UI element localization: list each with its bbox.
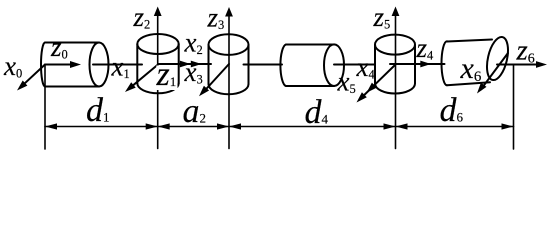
joint J5 cylinder (vertical) <box>375 35 415 94</box>
dimension line d4 <box>229 123 396 129</box>
dimension line d1 <box>45 123 158 129</box>
z6 axis <box>497 61 547 68</box>
z0 axis <box>45 61 81 68</box>
dimension line d6 <box>396 123 514 129</box>
z5 axis <box>392 7 400 149</box>
joint J3 cylinder (vertical) <box>209 34 249 94</box>
dimension extension line at x0 origin <box>44 65 46 150</box>
dimension line a2 <box>158 123 229 129</box>
x6 axis (diagonal toward viewer) <box>477 53 508 94</box>
label z1 (boxed inside joint J2) <box>156 56 178 93</box>
x2 axis line from frame origin through joint J2 wall <box>158 63 179 65</box>
wire axis link1 to joint2 <box>93 64 142 66</box>
wire axis joint3 to link L4 <box>244 64 283 66</box>
z4 axis (arrow between J5 and L6) <box>390 61 445 68</box>
dimension extension line at end effector <box>513 65 515 150</box>
x5 axis (second arrowhead on shared shaft) <box>357 92 367 102</box>
x4 axis (diagonal toward viewer, shared shaft with x5) <box>360 65 396 100</box>
z3 axis <box>225 7 233 149</box>
z2 axis <box>154 7 162 149</box>
x0 axis <box>17 65 45 91</box>
joint J2 cylinder (vertical) <box>137 34 178 93</box>
link L4 cylinder (horizontal) <box>280 44 344 86</box>
x1 axis (diagonal toward viewer) <box>125 65 158 93</box>
wire axis link L4 to joint J5 <box>334 64 374 66</box>
x3 axis (diagonal toward viewer) <box>199 64 229 96</box>
x2 axis (arrow between J2 and J3) <box>179 61 211 68</box>
link L1 cylinder (base, horizontal) <box>41 43 109 87</box>
link L6 cylinder (horizontal, end effector) <box>442 35 512 85</box>
